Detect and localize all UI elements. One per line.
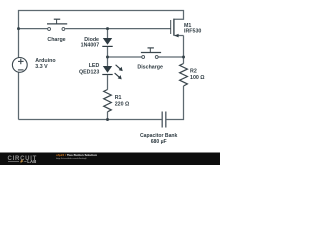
svg-text:LED: LED [89, 63, 100, 69]
svg-text:QED123: QED123 [79, 70, 99, 76]
svg-text:100 Ω: 100 Ω [190, 75, 205, 81]
svg-text:R1: R1 [115, 95, 122, 101]
svg-text:LAB: LAB [27, 159, 36, 164]
svg-text:220 Ω: 220 Ω [115, 101, 130, 107]
svg-text:Discharge: Discharge [137, 65, 163, 71]
svg-text:R2: R2 [190, 69, 197, 75]
svg-text:http://circuitlab.com/c/bmbq6: http://circuitlab.com/c/bmbq6 [56, 157, 87, 160]
svg-text:ofp22 / Two Button Solution: ofp22 / Two Button Solution [56, 153, 97, 157]
svg-text:Charge: Charge [47, 37, 65, 43]
svg-text:IRF530: IRF530 [184, 29, 201, 35]
svg-text:3.3 V: 3.3 V [35, 64, 48, 70]
svg-text:680 µF: 680 µF [151, 139, 167, 145]
svg-text:1N4007: 1N4007 [81, 42, 100, 48]
